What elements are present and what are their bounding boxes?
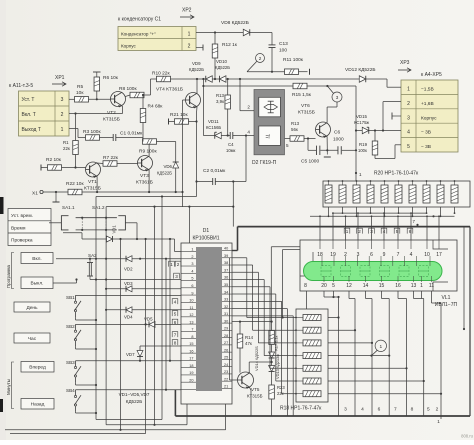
svg-text:VD10: VD10 (216, 59, 228, 64)
svg-text:27: 27 (224, 341, 228, 345)
switch SA1.1 (49, 205, 75, 230)
diode VD5 (144, 317, 155, 328)
svg-text:ХР3: ХР3 (400, 60, 410, 66)
display VL1 glass tube (304, 256, 443, 282)
svg-text:7: 7 (397, 252, 400, 258)
node circle 3 (332, 92, 342, 102)
svg-text:20: 20 (189, 378, 193, 382)
wire SA1.2 output (125, 223, 138, 240)
svg-text:17: 17 (436, 252, 442, 258)
button label Вперед (21, 362, 54, 373)
heavy bus horizontal y226.6 (238, 226, 471, 228)
wire VD1 row to IC pin1 (175, 239, 182, 252)
display VL1 outer box (300, 240, 457, 291)
wire R16 to VT6 base (304, 137, 316, 139)
transistor VT3 КТ361Б (136, 156, 153, 186)
svg-text:R11 100к: R11 100к (283, 57, 304, 63)
label VL1 ИВЛ1-7П (435, 295, 458, 308)
wire VT2 collector to R8 (125, 95, 130, 97)
heavy bus bottom y414 (175, 415, 470, 417)
wire XP1 pin2 row (69, 106, 123, 115)
resistor R11 100к (283, 57, 310, 75)
watermark bottom right (461, 434, 474, 439)
zener VD11 КС156Б (206, 119, 221, 139)
svg-text:39: 39 (224, 254, 228, 258)
bottom loop 4 (10, 433, 146, 435)
wire R8 right corner (144, 79, 151, 95)
svg-text:Выкл.: Выкл. (31, 281, 44, 287)
svg-text:32: 32 (224, 305, 228, 309)
svg-text:Корпус: Корпус (421, 115, 437, 121)
wire VT1 emitter (96, 176, 98, 193)
wire display pin8 to R18 area (282, 250, 301, 319)
svg-text:100к: 100к (358, 148, 367, 153)
wire VT5 emitter (249, 387, 251, 416)
svg-text:− 3В: − 3В (421, 130, 431, 136)
svg-text:R12 1к: R12 1к (222, 42, 238, 48)
vertical x162 (161, 195, 163, 419)
vertical x170 (169, 238, 171, 362)
wire Выкл link (53, 278, 78, 283)
wire XP1 pin3 row (69, 98, 111, 100)
resistor R9 100к (139, 139, 157, 155)
wire SA2 bottom row y279.5 (90, 278, 181, 280)
svg-text:VT5: VT5 (251, 387, 260, 392)
R20 network resistors x10 (325, 180, 458, 203)
wire VT5 collector link (249, 361, 273, 373)
svg-text:VL1: VL1 (442, 295, 451, 301)
svg-text:Вкл. Т: Вкл. Т (22, 112, 36, 118)
IC D1 right pins 40-21 (222, 247, 232, 389)
wire R7 row (117, 163, 138, 165)
connector XP2 label (180, 8, 194, 20)
wire R12 column (214, 33, 216, 81)
svg-text:18: 18 (189, 364, 193, 368)
wire x464 (463, 227, 465, 331)
svg-text:−1,5В: −1,5В (421, 87, 434, 93)
svg-text:R9 100к: R9 100к (139, 149, 157, 155)
capacitor C5 1000 (301, 146, 320, 165)
wire R2 to VT1 base (62, 167, 86, 169)
diode VD9 КД522Б (189, 61, 212, 82)
wire display pin18 to R17 column (271, 247, 300, 322)
svg-text:1: 1 (61, 127, 64, 133)
bottom loop 1 (96, 419, 162, 421)
svg-text:VD9: VD9 (192, 61, 201, 66)
resistor R5 10к (75, 84, 89, 102)
wire row y196.5 (96, 196, 197, 198)
svg-text:4: 4 (191, 269, 193, 273)
resistor R12 1к (212, 42, 238, 58)
resistor R2 10к (41, 157, 62, 171)
svg-text:56к: 56к (291, 127, 298, 132)
bottom loop 2 (106, 404, 187, 425)
resistor R3 100к (83, 129, 101, 140)
svg-text:R5: R5 (77, 84, 83, 90)
wire R16 node down (308, 139, 316, 151)
label R20 (374, 171, 419, 177)
svg-text:R21 10к: R21 10к (170, 112, 188, 118)
svg-text:VD12 КД522Б: VD12 КД522Б (345, 67, 376, 73)
wire SB bottom stubs (76, 317, 98, 414)
wire VD4 row y309.8 (105, 309, 181, 311)
svg-text:VD3: VD3 (124, 281, 133, 286)
svg-text:VT1: VT1 (88, 179, 97, 185)
svg-text:2: 2 (436, 407, 439, 413)
svg-text:к А11-т.3-5: к А11-т.3-5 (9, 83, 33, 89)
IC D1 label (192, 228, 219, 242)
svg-text:8: 8 (304, 283, 307, 289)
diode VD6 (157, 162, 179, 176)
resistor R21 10к (169, 112, 189, 125)
connector XP2 table with pins 1,2 (118, 27, 196, 51)
divider block symbol in D2 (259, 126, 281, 145)
svg-text:38: 38 (224, 261, 228, 265)
wire bus y79 left (151, 78, 206, 80)
wire XP2 pin1 row y32.5 (196, 31, 272, 33)
svg-text:16: 16 (189, 349, 193, 353)
group label Минуты (6, 362, 14, 409)
callout line to circle 2 (247, 61, 257, 71)
svg-text:VD2: VD2 (124, 267, 133, 272)
display bottom drop wires (324, 291, 441, 416)
svg-text:22: 22 (224, 377, 228, 381)
svg-text:SA1.1: SA1.1 (62, 205, 75, 210)
svg-text:Время: Время (11, 225, 26, 231)
svg-text:8: 8 (174, 341, 177, 346)
wire R6 bottom (96, 91, 98, 99)
svg-text:3,9к: 3,9к (216, 99, 224, 104)
diode VD2 (124, 256, 133, 272)
wire VT6 emitter (326, 136, 328, 150)
wire x441 tag1 (440, 416, 442, 419)
wire R9 right to VD6 (157, 142, 176, 162)
svg-text:ХР1: ХР1 (55, 75, 65, 81)
connector XP1 label (52, 75, 66, 86)
svg-text:R4 68к: R4 68к (148, 104, 164, 110)
svg-text:1: 1 (188, 32, 191, 38)
wire R19 column (375, 131, 401, 159)
wire y86 row (202, 79, 356, 87)
svg-text:SB3: SB3 (66, 360, 75, 365)
display VL1 bottom pin numbers (304, 283, 434, 289)
svg-text:3: 3 (61, 97, 64, 103)
wire SB4 row (76, 389, 182, 391)
svg-text:5: 5 (427, 407, 430, 413)
heavy bus left riser x175 (174, 390, 176, 416)
svg-text:21: 21 (224, 385, 228, 389)
diode VD7 (126, 351, 143, 358)
IC D1 shaded core (196, 247, 222, 391)
svg-text:19: 19 (189, 371, 193, 375)
wire VT4 base (183, 99, 186, 101)
svg-text:R6 10к: R6 10к (103, 75, 119, 81)
label к А11-т.3-5 (9, 83, 33, 89)
svg-text:R13: R13 (216, 93, 225, 98)
tag 1 R20 input (355, 172, 362, 177)
svg-text:1000: 1000 (333, 137, 344, 143)
svg-text:33: 33 (224, 298, 228, 302)
diode VD14 КД522Б (254, 346, 275, 372)
svg-text:SB2: SB2 (66, 324, 75, 329)
svg-text:9: 9 (191, 291, 193, 295)
resistor R13 3,9к (216, 93, 231, 109)
svg-text:37: 37 (224, 268, 228, 272)
svg-text:R19: R19 (359, 142, 368, 147)
svg-text:SB4: SB4 (66, 388, 75, 393)
svg-text:КТ315Б: КТ315Б (84, 186, 101, 192)
svg-text:VD1−VD5,VD7: VD1−VD5,VD7 (119, 392, 150, 397)
svg-text:R20 НР1-76-10-47к: R20 НР1-76-10-47к (374, 171, 419, 177)
svg-text:2: 2 (358, 229, 361, 234)
svg-text:1: 1 (379, 344, 382, 350)
wire VD6 bottom (175, 168, 177, 193)
svg-text:22к: 22к (63, 146, 70, 151)
svg-text:Уст. врем.: Уст. врем. (11, 213, 33, 219)
svg-text:47к: 47к (245, 341, 252, 346)
button label Час (14, 333, 50, 343)
wire D2 pin2 (240, 79, 254, 111)
svg-text:8: 8 (191, 335, 193, 339)
display VL1 top pin numbers (317, 240, 442, 258)
wire VT4 collector down (195, 107, 197, 197)
svg-text:КР1005ВИ1: КР1005ВИ1 (192, 236, 219, 242)
svg-text:30: 30 (224, 319, 228, 323)
resistor R23 22к (269, 385, 286, 399)
label к конденсатору С1 (118, 17, 161, 23)
group label Программа (6, 253, 14, 289)
svg-text:R2 10к: R2 10к (46, 157, 62, 163)
svg-text:10: 10 (424, 252, 430, 258)
svg-text:R7 22к: R7 22к (103, 155, 119, 161)
svg-text:С6: С6 (334, 130, 340, 136)
svg-text:R3 100к: R3 100к (83, 129, 101, 135)
wire tags 1-6 above display (344, 228, 413, 234)
svg-text:9: 9 (383, 252, 386, 258)
svg-text:С4: С4 (228, 142, 234, 147)
quartz crystal symbol in D2 (259, 97, 281, 117)
svg-text:20: 20 (321, 283, 327, 289)
wire XP3 row2 branch (383, 102, 401, 131)
svg-text:2: 2 (61, 112, 64, 118)
connector XP3 label (398, 60, 411, 72)
svg-text:− 3В: − 3В (421, 144, 431, 150)
R18 network box (296, 309, 328, 402)
transistor VT5 КТ315Б (238, 372, 263, 399)
capacitor C13 100 (269, 41, 289, 54)
svg-text:15: 15 (379, 283, 385, 289)
svg-text:3: 3 (175, 274, 178, 279)
svg-text:1: 1 (359, 172, 362, 177)
wire X1 row y192 (43, 191, 182, 193)
svg-text:14: 14 (363, 283, 369, 289)
connector XP1 table with pins 3,2,1 (19, 91, 70, 136)
svg-text:10мк: 10мк (226, 148, 236, 153)
quartz oscillator D2 body (254, 90, 285, 155)
svg-text:7: 7 (174, 333, 177, 338)
resistor R4 68к (140, 104, 163, 123)
svg-text:С13: С13 (279, 41, 288, 47)
svg-text:3: 3 (407, 115, 410, 121)
svg-text:R23: R23 (277, 385, 285, 390)
resistor R10 22к (152, 71, 171, 82)
svg-text:SB1: SB1 (66, 295, 75, 300)
svg-text:4: 4 (361, 407, 364, 413)
svg-text:31: 31 (224, 312, 228, 316)
resistor R22 10к (66, 181, 84, 195)
svg-text:R15 1,5к: R15 1,5к (292, 92, 312, 98)
transistor VT4 КТ361Б (156, 87, 201, 109)
svg-text:VD6: VD6 (163, 164, 172, 169)
switch SA1.2 and gang link (76, 205, 126, 231)
wire R17 to diodes (271, 345, 273, 386)
resistor R6 10к (93, 72, 119, 91)
svg-text:VD8 КД522Б: VD8 КД522Б (221, 20, 249, 26)
pushbutton SB1 (66, 295, 81, 317)
ground near X1 (53, 192, 60, 202)
wire VD1 row y239 (63, 233, 175, 240)
tag 7 on heavy bus (413, 219, 419, 226)
svg-text:5: 5 (191, 277, 193, 281)
button table Уст.врем/Время/Проверка (8, 209, 51, 246)
svg-text:2: 2 (191, 255, 193, 259)
wire SB3 row (76, 360, 182, 362)
svg-text:VD4: VD4 (124, 315, 133, 320)
label к А4-ХР5 (421, 72, 442, 78)
vertical feeder x182.5 (181, 100, 183, 207)
svg-text:17: 17 (189, 357, 193, 361)
svg-text:13: 13 (411, 283, 417, 289)
svg-text:КД522Б: КД522Б (126, 399, 142, 404)
svg-text:2: 2 (177, 262, 180, 267)
svg-text:КД522Б: КД522Б (189, 67, 204, 72)
wire display pin8 drop (306, 291, 308, 309)
wire VT4 emitter up (196, 79, 198, 93)
wire VT5 base feed (230, 258, 238, 380)
R18 network resistors x7 (295, 315, 321, 397)
wire C13 column (271, 33, 273, 73)
diode VD8 КД522Б (221, 20, 250, 36)
svg-text:1: 1 (420, 283, 423, 289)
svg-text:День: День (26, 305, 38, 311)
svg-text:С5 1000: С5 1000 (301, 159, 319, 165)
vertical x106 (105, 207, 107, 425)
wire row y206.6 (106, 206, 233, 208)
svg-text:34: 34 (224, 290, 228, 294)
corpus stub XP2 (196, 45, 203, 51)
svg-text:4: 4 (174, 300, 177, 305)
pushbutton SB2 (66, 324, 81, 346)
wire x356 down to VD15 (355, 86, 357, 181)
node circle 2 (256, 54, 265, 63)
wire C5-C6 row y150.3 (320, 149, 357, 151)
wire R13 column (227, 79, 229, 137)
svg-text:Минуты: Минуты (6, 379, 11, 395)
wire VD3 row y288.8 (105, 288, 181, 290)
svg-text:R1: R1 (63, 140, 69, 145)
wire SB2-VD5 row (76, 323, 182, 325)
svg-text:1: 1 (437, 419, 440, 424)
svg-text:25: 25 (224, 356, 228, 360)
svg-text:11: 11 (190, 306, 194, 310)
svg-text:12: 12 (346, 283, 352, 289)
svg-text:6: 6 (378, 407, 381, 413)
svg-text:36: 36 (224, 276, 228, 280)
svg-text:VD15: VD15 (356, 114, 368, 119)
svg-text:3: 3 (191, 262, 193, 266)
svg-text:10: 10 (189, 299, 193, 303)
wire R21 to VT4 vertical (189, 121, 197, 123)
pushbutton SB3 (66, 360, 81, 383)
connector XP3 table with pins 1-5 (401, 80, 458, 152)
capacitor C2 0,01мк (203, 168, 226, 185)
wire x189 to IC top (188, 207, 190, 243)
svg-text:VT3: VT3 (140, 173, 149, 179)
svg-text:3: 3 (336, 95, 339, 100)
IC right pin fan-out (232, 258, 293, 416)
wire R4 top (142, 94, 144, 109)
button label Назад (21, 399, 54, 410)
wire VT1 collector (97, 162, 103, 165)
svg-text:Час: Час (28, 336, 37, 342)
svg-text:КТ315Б: КТ315Б (298, 110, 315, 116)
wire R3-C1 row (100, 137, 144, 139)
svg-text:7: 7 (191, 328, 193, 332)
R18 outputs to display columns (328, 316, 442, 394)
wire VD7 column (140, 346, 181, 361)
switch SA2 (87, 253, 97, 280)
svg-text:Уст. Т: Уст. Т (22, 97, 35, 103)
svg-text:1: 1 (407, 87, 410, 93)
wire SA2-VD2 row y258.7 (56, 258, 181, 260)
diode VD10 КД522Б (215, 59, 230, 82)
R20 network box (323, 181, 470, 207)
svg-text:3: 3 (344, 407, 347, 413)
svg-text:R22 10к: R22 10к (66, 181, 84, 187)
wire R11 row y71.7 (247, 71, 285, 73)
label R18 (280, 406, 322, 412)
svg-text:19: 19 (330, 252, 336, 258)
resistor R16 56к (290, 121, 304, 141)
svg-text:6: 6 (191, 284, 193, 288)
left edge scan mark 1 (0, 197, 4, 214)
svg-text:R13: R13 (291, 121, 300, 126)
label D2 ГК19-П (252, 160, 277, 166)
resistor R15 1,5к (292, 83, 312, 98)
svg-text:1: 1 (191, 248, 193, 252)
diode VD13 КД213ж (269, 352, 280, 379)
svg-text:2: 2 (247, 105, 250, 110)
tag 1 bottom right (437, 419, 440, 424)
svg-text:24: 24 (224, 363, 228, 367)
wire SB1 row (76, 294, 182, 296)
vertical x145 (145, 239, 147, 434)
svg-text:КТ315Б: КТ315Б (103, 117, 120, 123)
callout line to circle 3 (327, 86, 333, 94)
wire D2 pin4 (246, 136, 254, 182)
node circle 1 (370, 340, 386, 357)
transistor VT1 КТ315Б (84, 162, 101, 192)
svg-text:Выход Т: Выход Т (22, 127, 41, 133)
svg-text:Вперед: Вперед (29, 365, 46, 371)
button label День (14, 302, 50, 312)
svg-text:Программа: Программа (6, 264, 11, 288)
zener VD15 КС175ж (354, 114, 369, 134)
svg-text:100: 100 (279, 48, 287, 54)
display VL1 inner notch right (433, 240, 448, 291)
wire bus y79 right (366, 79, 401, 87)
D2 pin 2 (247, 105, 250, 110)
